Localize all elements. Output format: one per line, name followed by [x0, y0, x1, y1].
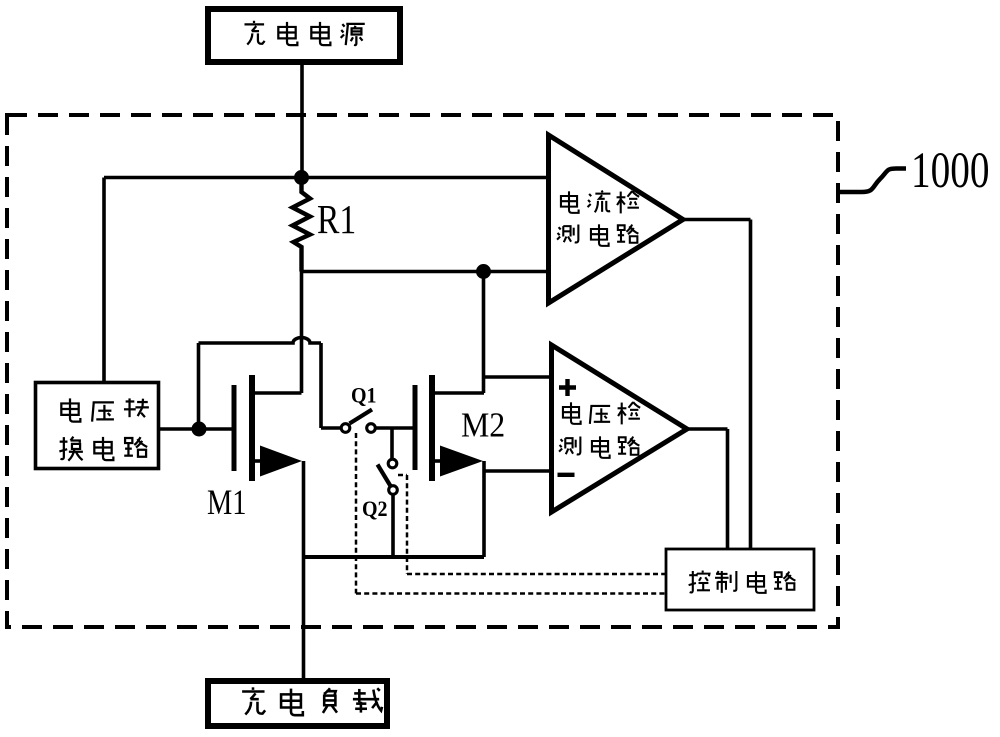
transistor M1 gate bar: [232, 385, 237, 471]
box charging load 充电负载: [208, 681, 387, 726]
label 充电负载: [242, 687, 382, 715]
lead-line squiggle to label 1000: [839, 169, 907, 193]
label 电压转换电路: [59, 398, 149, 460]
wire bottom rail: [304, 555, 485, 559]
op-amp voltage detector triangle: [552, 345, 688, 512]
svg-text:R1: R1: [317, 198, 356, 243]
node B junction dot: [476, 264, 491, 279]
wire gate net horizontal with crossover hop: [199, 338, 322, 343]
node C junction dot: [192, 422, 207, 437]
label 充电电源: [244, 21, 364, 45]
wire M1 source down to bottom rail and load: [302, 461, 306, 678]
svg-text:M1: M1: [207, 483, 247, 523]
wire Q2 down to bottom rail: [391, 495, 395, 558]
node A junction dot: [294, 170, 309, 185]
dashed enclosure 1000: [7, 115, 838, 627]
box control circuit 控制电路: [666, 549, 814, 610]
transistor M1 source arrow: [252, 459, 261, 463]
wire voltage detector output: [687, 429, 728, 549]
wire branch down to switch Q2: [390, 428, 394, 458]
transistor M2 drain lead: [432, 391, 484, 395]
wire voltage converter output to M1 gate: [159, 427, 234, 431]
transistor M1 channel bar: [249, 375, 255, 481]
svg-text:Q2: Q2: [362, 496, 388, 521]
minus input marker: [558, 473, 575, 477]
svg-text:1000: 1000: [911, 141, 990, 198]
transistor M2 source arrow: [432, 459, 441, 463]
wire top net horizontal: [104, 176, 549, 180]
wire node B down to M2 drain: [482, 272, 486, 394]
dashed control line to Q2: [398, 475, 666, 574]
wire mid net horizontal (R1 bottom to current detector): [302, 270, 550, 274]
wire Q1 to M2 gate: [376, 426, 413, 430]
wire from mid net down to M1 drain: [300, 272, 304, 394]
op-amp current detector triangle: [549, 135, 684, 303]
wire from charging power down to node A: [300, 62, 304, 177]
label 电压检测电路: [559, 402, 640, 458]
label 控制电路: [689, 571, 796, 593]
box charging power 充电电源: [208, 9, 400, 62]
transistor M2 gate bar: [413, 385, 418, 470]
resistor R1: [293, 178, 311, 272]
wire gate net down to switch Q1: [321, 343, 340, 428]
wire left drop to voltage converter: [102, 178, 106, 383]
plus input marker: [559, 379, 576, 396]
svg-text:M2: M2: [461, 406, 505, 445]
wire to voltage detector plus input: [484, 375, 553, 379]
wire M2 source down to bottom rail: [482, 461, 486, 557]
switch Q2: [388, 459, 397, 468]
dashed control line to Q1: [356, 433, 666, 594]
label 电流检测电路: [557, 191, 639, 246]
wire to voltage detector minus input: [484, 469, 552, 473]
box voltage converter 电压转换电路: [36, 383, 159, 469]
transistor M1 drain lead: [252, 391, 302, 395]
svg-text:Q1: Q1: [351, 383, 377, 408]
wire gate net up from node C: [197, 343, 201, 429]
switch Q1: [341, 424, 350, 433]
transistor M2 channel bar: [429, 375, 435, 481]
wire current detector output: [683, 220, 751, 550]
